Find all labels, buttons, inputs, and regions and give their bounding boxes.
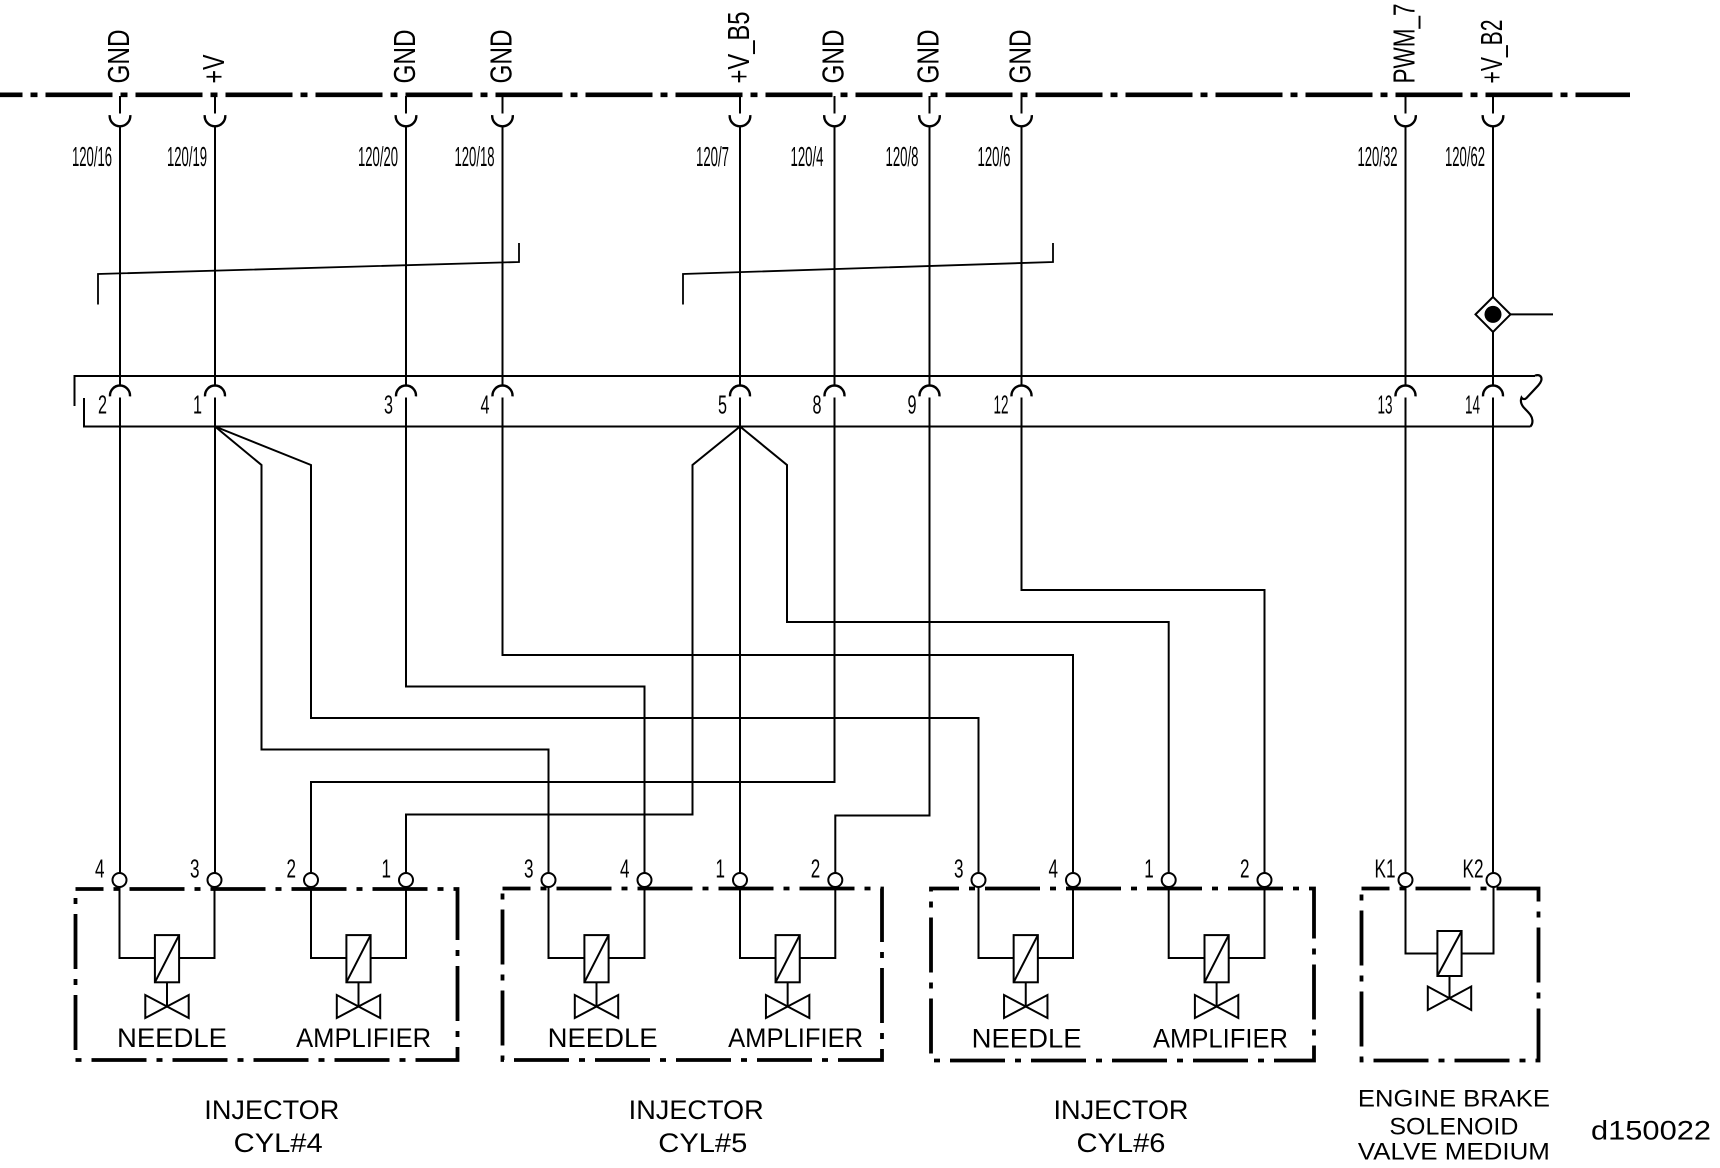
svg-text:12: 12 <box>994 390 1009 420</box>
svg-text:1: 1 <box>193 390 202 420</box>
svg-text:120/4: 120/4 <box>791 141 824 172</box>
svg-text:1: 1 <box>382 854 392 884</box>
svg-text:PWM_7: PWM_7 <box>1387 4 1422 84</box>
svg-text:NEEDLE: NEEDLE <box>548 1023 658 1053</box>
svg-text:4: 4 <box>481 390 490 420</box>
svg-text:3: 3 <box>954 854 964 884</box>
svg-text:INJECTOR: INJECTOR <box>204 1095 339 1125</box>
svg-text:120/7: 120/7 <box>696 141 729 172</box>
svg-text:VALVE MEDIUM: VALVE MEDIUM <box>1358 1139 1550 1165</box>
svg-text:1: 1 <box>1144 854 1154 884</box>
svg-text:NEEDLE: NEEDLE <box>972 1024 1082 1054</box>
svg-text:2: 2 <box>98 390 107 420</box>
svg-text:120/16: 120/16 <box>72 141 112 172</box>
svg-text:2: 2 <box>811 854 821 884</box>
svg-text:8: 8 <box>813 390 822 420</box>
svg-text:120/20: 120/20 <box>358 141 398 172</box>
svg-text:d150022: d150022 <box>1591 1116 1711 1146</box>
svg-text:5: 5 <box>718 390 727 420</box>
svg-text:K2: K2 <box>1463 854 1484 884</box>
svg-text:CYL#6: CYL#6 <box>1077 1128 1166 1158</box>
svg-text:INJECTOR: INJECTOR <box>629 1095 764 1125</box>
svg-text:3: 3 <box>524 854 534 884</box>
svg-text:GND: GND <box>484 30 519 84</box>
svg-text:2: 2 <box>287 854 297 884</box>
svg-text:9: 9 <box>908 390 917 420</box>
svg-text:AMPLIFIER: AMPLIFIER <box>1153 1024 1288 1054</box>
svg-text:120/32: 120/32 <box>1358 141 1398 172</box>
svg-text:SOLENOID: SOLENOID <box>1389 1114 1518 1140</box>
svg-text:NEEDLE: NEEDLE <box>117 1023 227 1053</box>
svg-text:GND: GND <box>387 30 422 84</box>
svg-text:INJECTOR: INJECTOR <box>1054 1095 1189 1125</box>
svg-text:GND: GND <box>816 30 851 84</box>
svg-text:120/8: 120/8 <box>886 141 919 172</box>
svg-text:K1: K1 <box>1375 854 1396 884</box>
svg-text:GND: GND <box>911 30 946 84</box>
svg-text:ENGINE BRAKE: ENGINE BRAKE <box>1358 1087 1550 1113</box>
svg-text:CYL#4: CYL#4 <box>234 1128 323 1158</box>
svg-text:4: 4 <box>620 854 630 884</box>
svg-text:1: 1 <box>716 854 726 884</box>
svg-text:GND: GND <box>1003 30 1038 84</box>
svg-text:CYL#5: CYL#5 <box>658 1128 747 1158</box>
svg-text:120/62: 120/62 <box>1445 141 1485 172</box>
svg-text:4: 4 <box>1049 854 1059 884</box>
svg-text:+V: +V <box>196 54 231 83</box>
svg-text:GND: GND <box>101 30 136 84</box>
svg-text:+V_B2: +V_B2 <box>1474 20 1509 84</box>
svg-text:120/19: 120/19 <box>167 141 207 172</box>
svg-text:4: 4 <box>95 854 105 884</box>
svg-text:AMPLIFIER: AMPLIFIER <box>728 1023 863 1053</box>
svg-text:AMPLIFIER: AMPLIFIER <box>296 1023 431 1053</box>
svg-text:3: 3 <box>190 854 200 884</box>
svg-text:+V_B5: +V_B5 <box>721 12 756 84</box>
svg-text:120/18: 120/18 <box>455 141 495 172</box>
svg-text:120/6: 120/6 <box>978 141 1011 172</box>
svg-text:14: 14 <box>1465 390 1480 420</box>
svg-text:2: 2 <box>1240 854 1250 884</box>
svg-text:3: 3 <box>384 390 393 420</box>
svg-text:13: 13 <box>1378 390 1393 420</box>
